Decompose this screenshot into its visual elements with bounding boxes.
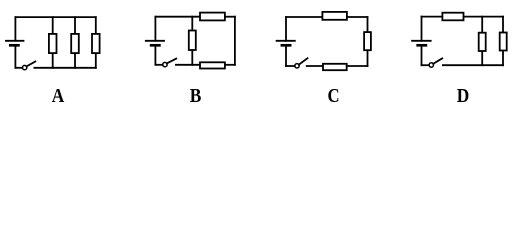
svg-text:A: A [52,85,65,106]
svg-text:D: D [457,85,470,106]
svg-text:C: C [328,85,340,106]
svg-text:B: B [190,85,202,106]
